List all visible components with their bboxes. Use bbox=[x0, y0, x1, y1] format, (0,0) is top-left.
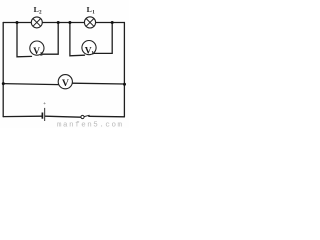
wire V1 left connector bbox=[70, 23, 85, 56]
voltmeter V2 bbox=[30, 41, 44, 58]
svg-text:2: 2 bbox=[39, 9, 42, 15]
node junction mid-right of lamps bbox=[68, 21, 71, 24]
lamp L2 bbox=[31, 17, 42, 28]
svg-text:2: 2 bbox=[40, 52, 43, 58]
wire bottom middle (battery to switch) bbox=[45, 116, 80, 117]
wire right outer vertical bbox=[123, 23, 125, 117]
voltmeter V1 bbox=[82, 41, 96, 57]
node junction top-right bbox=[111, 21, 114, 24]
svg-text:manfen5.com: manfen5.com bbox=[57, 122, 124, 128]
wire V1 right connector bbox=[94, 23, 112, 54]
svg-text:L: L bbox=[87, 5, 92, 14]
wire middle voltmeter row right bbox=[72, 82, 124, 85]
node junction mid-left of lamps bbox=[57, 21, 60, 24]
svg-text:V: V bbox=[62, 78, 69, 89]
wire bottom left (corner to battery) bbox=[3, 115, 42, 117]
wire V2 left connector bbox=[17, 23, 32, 57]
wire middle voltmeter row bbox=[3, 84, 59, 85]
svg-text:1: 1 bbox=[91, 50, 94, 56]
node junction top-left bbox=[16, 21, 19, 24]
switch S bbox=[81, 115, 90, 118]
svg-text:1: 1 bbox=[92, 9, 95, 15]
voltmeter V bbox=[58, 75, 72, 89]
wire left outer vertical bbox=[2, 23, 4, 117]
node junction left voltmeter row bbox=[2, 82, 5, 85]
lamp L1 bbox=[84, 17, 95, 28]
wire bottom right (switch to corner) bbox=[89, 115, 125, 118]
wire top horizontal bbox=[3, 22, 124, 24]
node junction right voltmeter row bbox=[123, 83, 126, 86]
wire V2 right connector bbox=[42, 23, 59, 55]
svg-text:+: + bbox=[43, 101, 46, 107]
battery B plates bbox=[42, 101, 46, 121]
